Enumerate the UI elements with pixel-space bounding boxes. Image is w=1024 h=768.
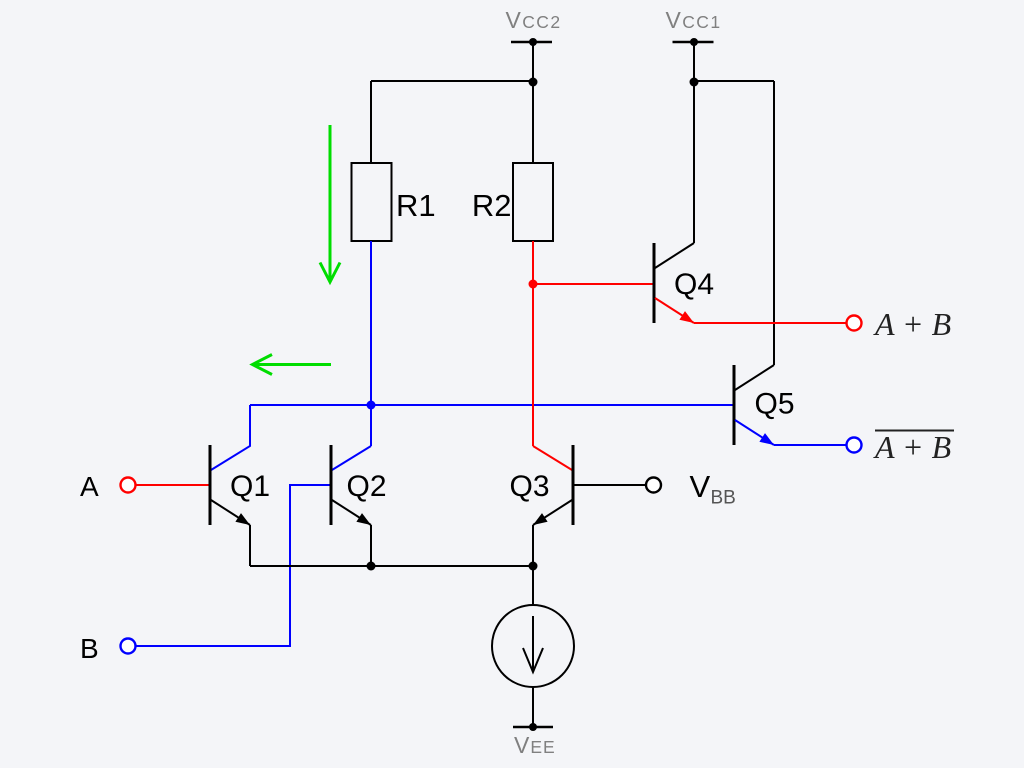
node VEE dot bbox=[529, 723, 537, 731]
power symbol VEE bar bbox=[513, 726, 553, 728]
svg-text:A + B: A + B bbox=[873, 429, 951, 465]
node VCC2 dot bbox=[529, 38, 537, 46]
wire Q4 base red horizontal bbox=[533, 283, 654, 285]
wire blue bus horizontal bbox=[250, 404, 734, 406]
wire Q3 collector red diagonal bbox=[533, 446, 572, 470]
wire Q3 emitter down bbox=[532, 525, 534, 566]
transistor Q3 bbox=[533, 445, 573, 525]
wire Q4 emitter red output bbox=[694, 322, 846, 324]
svg-text:Q2: Q2 bbox=[347, 470, 387, 503]
svg-text:Q1: Q1 bbox=[230, 470, 270, 503]
transistor Q4 bbox=[654, 243, 694, 323]
wire Q2 collector blue diagonal bbox=[332, 446, 371, 470]
svg-text:A: A bbox=[80, 471, 99, 502]
wire Q5 collector vertical bbox=[773, 81, 775, 365]
node blue junction dot bbox=[367, 401, 376, 410]
wire Q1 collector blue bbox=[211, 405, 250, 470]
svg-text:B: B bbox=[80, 633, 99, 664]
svg-text:Q4: Q4 bbox=[674, 268, 714, 301]
transistor Q1 bbox=[210, 445, 250, 525]
svg-text:VCC2: VCC2 bbox=[506, 7, 562, 33]
wire B input blue bbox=[136, 485, 331, 646]
wire emitter bus bottom bbox=[250, 565, 533, 567]
transistor Q5 bbox=[734, 365, 774, 445]
label A+B overline bar bbox=[875, 430, 954, 432]
wire Q4 collector vertical bbox=[693, 81, 695, 243]
svg-text:R2: R2 bbox=[472, 188, 512, 223]
terminal A circle bbox=[121, 478, 136, 493]
svg-text:BB: BB bbox=[711, 488, 736, 509]
transistor Q2 bbox=[331, 445, 371, 525]
wire Q2 emitter down bbox=[370, 525, 372, 566]
svg-text:VCC1: VCC1 bbox=[666, 7, 722, 33]
wire R1 top lead bbox=[370, 81, 372, 163]
svg-text:Q5: Q5 bbox=[755, 388, 795, 421]
resistor R1 bbox=[352, 163, 392, 241]
node junction VCC2/R1 dot bbox=[529, 78, 538, 87]
svg-text:A + B: A + B bbox=[873, 306, 951, 342]
wire current source to VEE bbox=[532, 687, 534, 727]
terminal NOR output circle bbox=[847, 438, 862, 453]
wire top horizontal to R1 bbox=[371, 80, 533, 82]
wire VCC1 horizontal to Q5 collector bbox=[694, 80, 774, 82]
wire A input red bbox=[136, 484, 210, 486]
svg-text:V: V bbox=[690, 469, 711, 504]
green arrow vertical current direction bbox=[320, 125, 340, 282]
node junction VCC1 dot bbox=[690, 78, 699, 87]
terminal A+B circle bbox=[847, 316, 862, 331]
wire Q3 base to VBB bbox=[573, 484, 646, 486]
power symbol VCC1 bar bbox=[673, 41, 714, 43]
terminal VBB circle bbox=[646, 478, 661, 493]
wire VCC2 stem bbox=[532, 42, 534, 163]
wire R2 bottom red vertical bbox=[532, 241, 534, 446]
power symbol VCC2 bar bbox=[511, 41, 552, 43]
terminal B circle bbox=[121, 639, 136, 654]
wire Q1 emitter down bbox=[249, 525, 251, 566]
node red junction dot bbox=[529, 280, 538, 289]
wire to current source bbox=[532, 566, 534, 605]
current source I1 bbox=[492, 605, 574, 687]
node VCC1 dot bbox=[690, 38, 698, 46]
svg-text:VEE: VEE bbox=[514, 732, 556, 758]
svg-text:R1: R1 bbox=[396, 188, 436, 223]
wire Q5 emitter blue output bbox=[774, 444, 846, 446]
resistor R2 bbox=[513, 163, 553, 241]
wire VCC1 stem bbox=[693, 42, 695, 82]
node bottom junction Q3 dot bbox=[529, 562, 538, 571]
node bottom junction Q2 dot bbox=[367, 562, 376, 571]
green arrow horizontal current direction bbox=[253, 355, 332, 375]
svg-text:Q3: Q3 bbox=[510, 470, 550, 503]
wire R1 bottom blue vertical bbox=[370, 241, 372, 446]
